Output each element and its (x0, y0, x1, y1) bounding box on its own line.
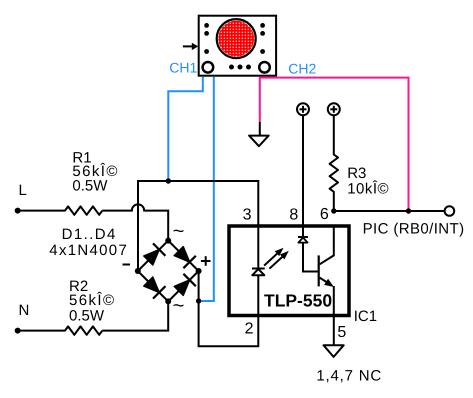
label R3 value (347, 165, 389, 197)
node CH1 ground junction (196, 298, 201, 303)
svg-text:0.5W: 0.5W (72, 178, 108, 195)
ground pin 5 (324, 345, 344, 357)
terminal PIC output (445, 206, 455, 216)
wire CH2 probe (magenta) (260, 77, 409, 211)
wire CH1 probe (blue) (168, 77, 203, 181)
LED emission arrows (264, 249, 288, 269)
diode D (left-bottom edge) (144, 277, 166, 299)
resistor R3 (330, 116, 338, 212)
label D1..D4 (49, 226, 128, 259)
svg-text:4x1N4007: 4x1N4007 (49, 242, 128, 259)
bridge frame (138, 241, 199, 302)
opto-coupler U1 box (229, 226, 349, 316)
svg-text:6: 6 (320, 206, 329, 223)
wire CH1 ground clip (blue) (199, 77, 214, 301)
label - (123, 264, 131, 266)
svg-text:~: ~ (173, 295, 185, 317)
ground scope CH2 (249, 136, 269, 147)
svg-text:CH2: CH2 (288, 61, 316, 77)
oscilloscope CH1 knob (203, 62, 214, 73)
svg-text:D1..D4: D1..D4 (62, 226, 117, 243)
oscilloscope body (199, 16, 276, 76)
oscilloscope panel dots (204, 23, 265, 70)
bridge rectifier D1..D4 (138, 241, 199, 302)
svg-text:PIC (RB0/INT): PIC (RB0/INT) (363, 221, 465, 238)
trigger input arrow (183, 43, 198, 50)
node CH1 probe junction (166, 178, 171, 183)
photodiode of opto-coupler (298, 237, 308, 243)
node bridge top (165, 238, 171, 244)
oscilloscope CH2 knob (259, 62, 270, 73)
diode D (top-right edge) (174, 247, 196, 269)
node CH2 junction (406, 208, 411, 213)
diode D (bottom-right edge) (174, 274, 196, 296)
svg-text:IC1: IC1 (354, 308, 377, 325)
svg-text:1,4,7 NC: 1,4,7 NC (316, 367, 382, 384)
svg-text:0.5W: 0.5W (69, 307, 105, 324)
terminal L (15, 208, 21, 214)
svg-text:TLP-550: TLP-550 (264, 291, 332, 311)
label R1 value (72, 149, 118, 194)
node bridge bottom (165, 298, 171, 304)
node bridge left (135, 268, 141, 274)
svg-text:2: 2 (245, 321, 254, 338)
wire bridge minus rail to pin 3 (138, 181, 258, 271)
node pin 6 junction (331, 208, 336, 213)
wire pin 6 to PIC output (334, 210, 445, 212)
wire N to bridge bottom (102, 301, 168, 330)
power terminal for R3 (328, 103, 340, 115)
svg-text:5: 5 (337, 324, 346, 341)
svg-text:CH1: CH1 (169, 60, 197, 76)
label R2 value (69, 278, 115, 324)
svg-text:8: 8 (289, 206, 298, 223)
resistor R2 (18, 326, 103, 334)
svg-text:N: N (19, 302, 30, 319)
transistor of opto-coupler (319, 226, 334, 345)
node bridge right (196, 268, 202, 274)
wire photodiode to base (303, 243, 318, 272)
diode D (left-top edge) (144, 243, 166, 265)
svg-text:3: 3 (243, 206, 252, 223)
wire bridge plus rail to pin 2 (199, 271, 259, 346)
wire L to bridge top with hop (102, 204, 168, 240)
power terminal for pin 8 (297, 103, 309, 115)
resistor R1 (18, 206, 103, 214)
oscilloscope screen (217, 19, 256, 58)
svg-text:~: ~ (173, 221, 185, 243)
wire CH2 ground lead (259, 122, 261, 136)
wire power to pin 8 (302, 116, 304, 238)
label + (201, 256, 211, 266)
svg-text:10kÎ©: 10kÎ© (347, 179, 389, 197)
svg-text:L: L (19, 182, 27, 199)
LED of opto-coupler (252, 269, 265, 276)
terminal N (15, 328, 21, 334)
svg-text:56kÎ©: 56kÎ© (69, 291, 115, 309)
